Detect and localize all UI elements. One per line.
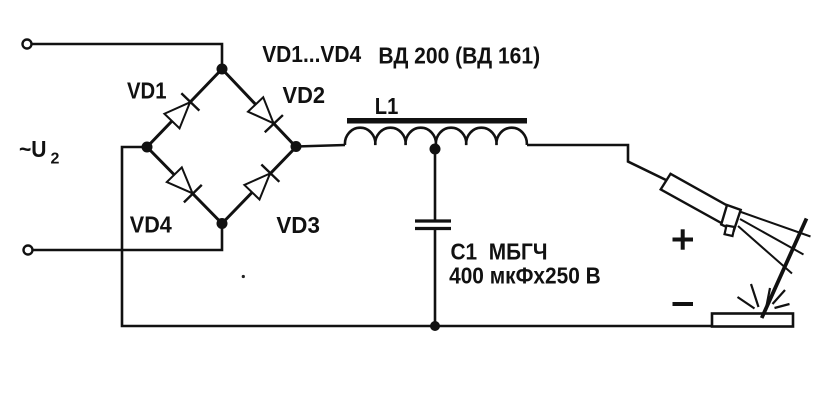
svg-text:L1: L1 bbox=[375, 93, 399, 119]
electrode holder nub bbox=[725, 226, 735, 237]
node bottom bbox=[217, 218, 228, 229]
svg-text:VD3: VD3 bbox=[276, 212, 320, 238]
electrode bbox=[762, 219, 807, 319]
terminal top-left bbox=[23, 40, 32, 49]
spark 4 bbox=[773, 290, 786, 304]
electrode holder body bbox=[661, 174, 728, 224]
node right bbox=[291, 141, 302, 152]
workpiece bbox=[712, 314, 793, 327]
svg-text:С1 МБГЧ: С1 МБГЧ bbox=[451, 239, 548, 265]
inductor L1 core bar bbox=[347, 118, 527, 124]
wire right node to L1 bbox=[296, 145, 345, 147]
wire C1 bottom bbox=[434, 230, 437, 326]
arc ray 1 bbox=[741, 212, 811, 237]
diode VD4 bbox=[165, 166, 201, 202]
stray ink dot bbox=[242, 275, 245, 278]
svg-text:~U: ~U bbox=[19, 136, 47, 162]
svg-text:400 мкФх250 В: 400 мкФх250 В bbox=[449, 263, 601, 289]
arc ray 3 bbox=[738, 226, 792, 274]
svg-text:VD4: VD4 bbox=[130, 211, 172, 237]
capacitor C1 bbox=[415, 219, 451, 222]
diode VD1 bbox=[163, 93, 199, 129]
spark 2 bbox=[738, 297, 755, 309]
polarity minus bbox=[673, 302, 694, 306]
svg-text:2: 2 bbox=[51, 151, 60, 168]
svg-text:VD1: VD1 bbox=[127, 78, 167, 104]
spark 3 bbox=[767, 288, 771, 306]
arc ray 2 bbox=[740, 219, 804, 255]
wire bottom input bbox=[33, 225, 223, 250]
svg-text:VD2: VD2 bbox=[283, 82, 326, 108]
node left bbox=[142, 142, 153, 153]
diode VD2 bbox=[247, 96, 283, 132]
spark 5 bbox=[775, 304, 790, 308]
inductor L1 winding bbox=[345, 128, 527, 145]
wire C1 top bbox=[434, 149, 437, 220]
node C1 tap bbox=[430, 144, 441, 155]
wire node to minus rail bbox=[122, 147, 793, 326]
svg-text:ВД 200 (ВД 161): ВД 200 (ВД 161) bbox=[378, 43, 540, 69]
polarity plus bbox=[673, 229, 694, 249]
electrode holder collar bbox=[721, 205, 741, 230]
svg-text:VD1...VD4: VD1...VD4 bbox=[262, 41, 361, 67]
terminal bottom-left bbox=[24, 246, 33, 255]
spark 1 bbox=[751, 284, 759, 307]
node top bbox=[217, 64, 228, 75]
wire bridge diamond bbox=[147, 69, 296, 224]
wire L1 to electrode holder bbox=[527, 145, 666, 180]
diode VD3 bbox=[243, 164, 279, 200]
node C1 bottom junction bbox=[430, 321, 440, 331]
wire top input bbox=[32, 44, 223, 68]
